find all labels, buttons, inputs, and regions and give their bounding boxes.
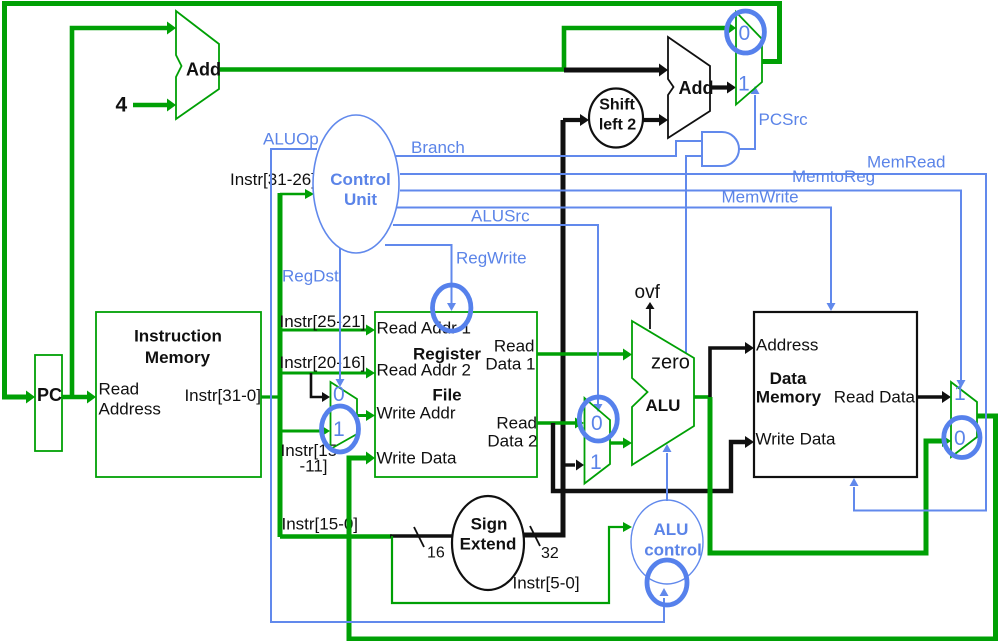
control label Branch [411, 138, 465, 157]
control label PCSrc [759, 110, 809, 129]
control wire MemRead to Data Memory [400, 174, 986, 511]
svg-text:-11]: -11] [300, 457, 328, 476]
mux PCSrc [736, 12, 762, 105]
svg-text:zero: zero [651, 352, 690, 374]
highlight circle on PCSrc mux 0 [727, 11, 765, 53]
control label RegWrite [456, 249, 527, 268]
control wire zero flag from ALU to AND gate [686, 156, 701, 353]
ellipse Shift left 2 [589, 89, 643, 148]
block Data Memory [754, 312, 917, 477]
svg-text:Data 1: Data 1 [485, 355, 535, 374]
wire PC value up to Add PC+4 top input [72, 22, 176, 398]
svg-text:PC: PC [37, 385, 62, 405]
mux RegDst [331, 382, 358, 449]
highlight circle on MemtoReg mux 0 [944, 418, 980, 458]
wire branch Add output to PCSrc mux input 1 [710, 82, 736, 94]
control wire ALUSrc to mux select [393, 225, 603, 412]
wire Read Data 2 to ALUSrc mux input 0 [537, 418, 584, 429]
value label 4 [116, 94, 128, 117]
wire Instr[31-26] to Control Unit [280, 189, 314, 199]
wire Instr[15-0] from bus toward Sign Extend [280, 534, 392, 539]
svg-text:0: 0 [954, 427, 966, 450]
bus width tick 32 [530, 526, 559, 562]
svg-text:MemRead: MemRead [867, 153, 945, 172]
wire ALU result to MemtoReg mux input 0 [710, 397, 951, 553]
adder Add branch target [668, 37, 714, 138]
svg-text:0: 0 [591, 412, 603, 435]
svg-text:1: 1 [738, 73, 750, 96]
wire Read Data 2 to Data Memory Write Data [553, 423, 754, 491]
wire Shift left 2 output to branch Add [643, 114, 668, 126]
adder Add PC+4 [176, 11, 221, 119]
wire Instr[20-16] drop to RegDst mux input 0 [311, 373, 330, 402]
svg-text:16: 16 [427, 545, 445, 562]
wire constant 4 into Add input [133, 99, 176, 112]
wire Add output PC+4 to PCSrc mux input 0 [219, 22, 736, 70]
wire ALU result to Data Memory Address [710, 342, 754, 397]
svg-text:Read: Read [494, 337, 535, 356]
svg-text:Add: Add [186, 60, 221, 80]
svg-text:Instr[31-26]: Instr[31-26] [230, 170, 316, 189]
wire sign-extended value to ALUSrc mux input 1 [563, 460, 584, 471]
control wire ALUOp from Control Unit to ALU control [271, 149, 669, 622]
svg-text:Instruction: Instruction [134, 327, 222, 346]
wire Instr[15-11] to RegDst mux input 1 [280, 426, 330, 436]
wire Instr[31-0] output of Instruction Memory [259, 395, 280, 398]
label Instr[25-21] [280, 312, 366, 331]
svg-text:Extend: Extend [460, 535, 517, 554]
label Instr[15-0] [282, 515, 359, 534]
svg-text:Branch: Branch [411, 138, 465, 157]
bus width tick 16 [414, 527, 445, 562]
svg-text:Memory: Memory [145, 348, 211, 367]
label Instr[31-26] [230, 170, 316, 189]
control wire ALU control output to ALU [663, 444, 672, 501]
svg-text:1: 1 [954, 382, 966, 405]
wire sign-extended value into Shift left 2 [563, 114, 589, 126]
wire Instr[5-0] to ALU control [392, 522, 632, 603]
mux MemtoReg [951, 382, 977, 457]
svg-text:Write Addr: Write Addr [377, 404, 456, 423]
svg-text:Shift: Shift [599, 97, 635, 114]
control wire RegDst to mux select [336, 247, 345, 387]
svg-text:Read Data: Read Data [834, 388, 916, 407]
svg-text:PCSrc: PCSrc [759, 110, 809, 129]
svg-text:1: 1 [333, 418, 345, 441]
control label ALUSrc [471, 207, 530, 226]
ellipse Sign Extend [452, 496, 524, 590]
svg-text:Address: Address [99, 400, 161, 419]
ellipse Control Unit [313, 115, 399, 253]
register PC [35, 355, 62, 451]
ALU U1 [632, 321, 694, 465]
wire Instr[15-0] black segment into Sign Extend [390, 534, 453, 538]
svg-text:File: File [432, 386, 461, 405]
highlight circle on ALUSrc mux 0 [579, 397, 617, 441]
wire ALU result output [694, 395, 710, 399]
svg-text:left 2: left 2 [599, 117, 636, 134]
svg-text:Data 2: Data 2 [487, 432, 537, 451]
wire Instr[25-21] to Read Addr 1 [280, 325, 375, 336]
highlight circle on RegWrite input [433, 285, 471, 331]
ellipse ALU control [631, 500, 703, 584]
svg-text:0: 0 [739, 22, 751, 45]
svg-text:Unit: Unit [344, 190, 377, 209]
svg-text:Address: Address [756, 336, 818, 355]
svg-text:Write Data: Write Data [756, 430, 837, 449]
svg-text:Memory: Memory [756, 388, 822, 407]
label ovf [635, 282, 661, 303]
svg-text:Read Addr 2: Read Addr 2 [377, 361, 472, 380]
svg-text:Sign: Sign [471, 515, 508, 534]
wire instruction bus vertical [278, 193, 283, 537]
svg-text:RegDst: RegDst [282, 267, 339, 286]
svg-text:control: control [644, 541, 702, 560]
svg-text:RegWrite: RegWrite [456, 249, 527, 268]
wire Data Memory Read Data to MemtoReg mux input 1 [917, 391, 951, 403]
svg-text:4: 4 [116, 94, 128, 117]
svg-text:ALU: ALU [646, 396, 681, 415]
mux ALUSrc [585, 398, 611, 484]
control wire MemtoReg to mux select [400, 191, 966, 389]
control wire Branch to AND gate [396, 141, 701, 156]
svg-text:ovf: ovf [635, 282, 661, 303]
highlight circle on RegDst mux 1 [322, 406, 359, 452]
label Instr[20-16] [280, 353, 366, 372]
wire RegDst mux output to Write Addr [357, 410, 375, 421]
block Instruction Memory [96, 312, 261, 477]
wire ovf flag out of ALU [646, 302, 655, 329]
block Register File [375, 312, 538, 477]
svg-text:Read: Read [99, 380, 140, 399]
svg-text:Instr[5-0]: Instr[5-0] [513, 574, 580, 593]
svg-text:32: 32 [541, 545, 559, 562]
control label MemRead [867, 153, 945, 172]
control wire MemWrite to Data Memory [397, 208, 836, 312]
wire PC-loop from PCSrc mux output to PC input [5, 4, 780, 404]
AND gate for Branch and zero [702, 132, 739, 166]
wire PC output to Instruction Memory Read Address [62, 391, 96, 404]
wire ALUSrc mux output to ALU input [610, 438, 632, 449]
svg-text:1: 1 [590, 451, 602, 474]
svg-text:MemtoReg: MemtoReg [792, 167, 875, 186]
label Instr[5-0] [513, 574, 580, 593]
svg-text:ALU: ALU [654, 520, 689, 539]
control wire AND gate output PCSrc to mux select [739, 86, 760, 149]
control label MemtoReg [792, 167, 875, 186]
wire Sign Extend output 32-bit [523, 120, 563, 535]
wire Instr[20-16] to Read Addr 2 [280, 368, 375, 379]
svg-text:Read: Read [496, 414, 537, 433]
svg-text:Instr[25-21]: Instr[25-21] [280, 312, 366, 331]
label Instr[15-11] [281, 441, 338, 476]
svg-text:Write Data: Write Data [377, 449, 458, 468]
wire write-back from MemtoReg mux to Register File Write Data [349, 416, 996, 639]
control label MemWrite [722, 188, 799, 207]
svg-text:Add: Add [679, 78, 714, 98]
control wire RegWrite to Register File [385, 245, 456, 311]
highlight circle on ALU control input [647, 560, 687, 605]
wire PC+4 to branch Add top input [564, 64, 668, 77]
svg-text:0: 0 [333, 383, 345, 406]
svg-text:ALUSrc: ALUSrc [471, 207, 530, 226]
svg-text:Control: Control [330, 170, 390, 189]
control label RegDst [282, 267, 339, 286]
control label ALUOp [263, 130, 319, 149]
svg-text:Data: Data [770, 369, 807, 388]
wire Read Data 1 to ALU input [537, 349, 632, 361]
svg-text:ALUOp: ALUOp [263, 130, 319, 149]
svg-text:Instr[31-0]: Instr[31-0] [184, 386, 261, 405]
svg-text:MemWrite: MemWrite [722, 188, 799, 207]
svg-text:Instr[20-16]: Instr[20-16] [280, 353, 366, 372]
